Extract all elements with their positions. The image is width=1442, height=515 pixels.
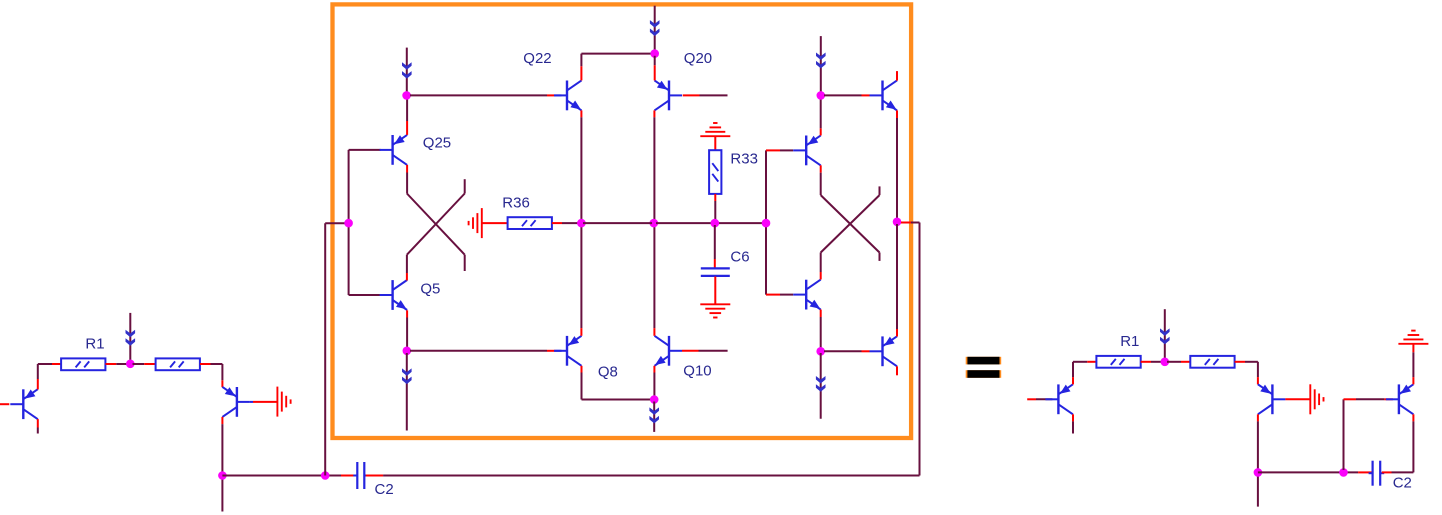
svg-text:Q20: Q20 — [684, 50, 712, 67]
svg-text:R36: R36 — [502, 195, 530, 212]
svg-text:Q5: Q5 — [420, 281, 440, 298]
svg-text:Q8: Q8 — [598, 364, 618, 381]
svg-text:R1: R1 — [1120, 333, 1139, 350]
svg-text:C6: C6 — [730, 249, 749, 266]
svg-text:Q10: Q10 — [683, 363, 711, 380]
svg-text:R1: R1 — [85, 335, 104, 352]
svg-text:Q22: Q22 — [523, 50, 551, 67]
svg-text:R33: R33 — [730, 151, 758, 168]
svg-text:C2: C2 — [1393, 475, 1412, 492]
svg-text:Q25: Q25 — [423, 135, 451, 152]
svg-text:C2: C2 — [375, 481, 394, 498]
